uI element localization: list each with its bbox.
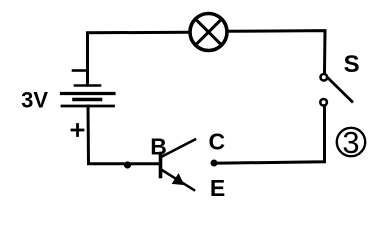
svg-text:C: C bbox=[208, 129, 225, 155]
svg-text:3V: 3V bbox=[21, 88, 48, 113]
svg-text:E: E bbox=[210, 175, 225, 201]
svg-text:S: S bbox=[344, 51, 360, 78]
svg-text:3: 3 bbox=[342, 125, 359, 160]
svg-text:B: B bbox=[150, 134, 167, 160]
